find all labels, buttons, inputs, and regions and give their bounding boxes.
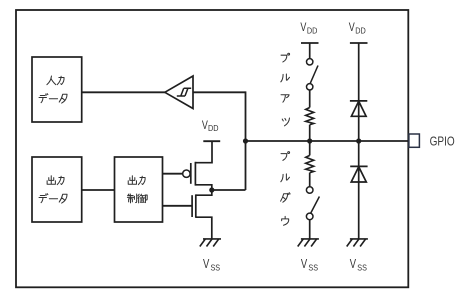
- svg-text:DD: DD: [355, 26, 366, 35]
- svg-text:SS: SS: [357, 262, 367, 272]
- svg-text:GPIO: GPIO: [430, 133, 455, 148]
- svg-text:V: V: [202, 118, 208, 132]
- svg-text:DD: DD: [208, 124, 219, 133]
- svg-text:SS: SS: [308, 262, 318, 272]
- svg-text:V: V: [203, 256, 210, 271]
- svg-text:V: V: [350, 256, 357, 271]
- svg-text:SS: SS: [211, 262, 221, 272]
- svg-text:V: V: [300, 20, 306, 34]
- svg-text:V: V: [349, 20, 355, 34]
- svg-text:V: V: [301, 256, 308, 271]
- svg-text:DD: DD: [307, 26, 318, 35]
